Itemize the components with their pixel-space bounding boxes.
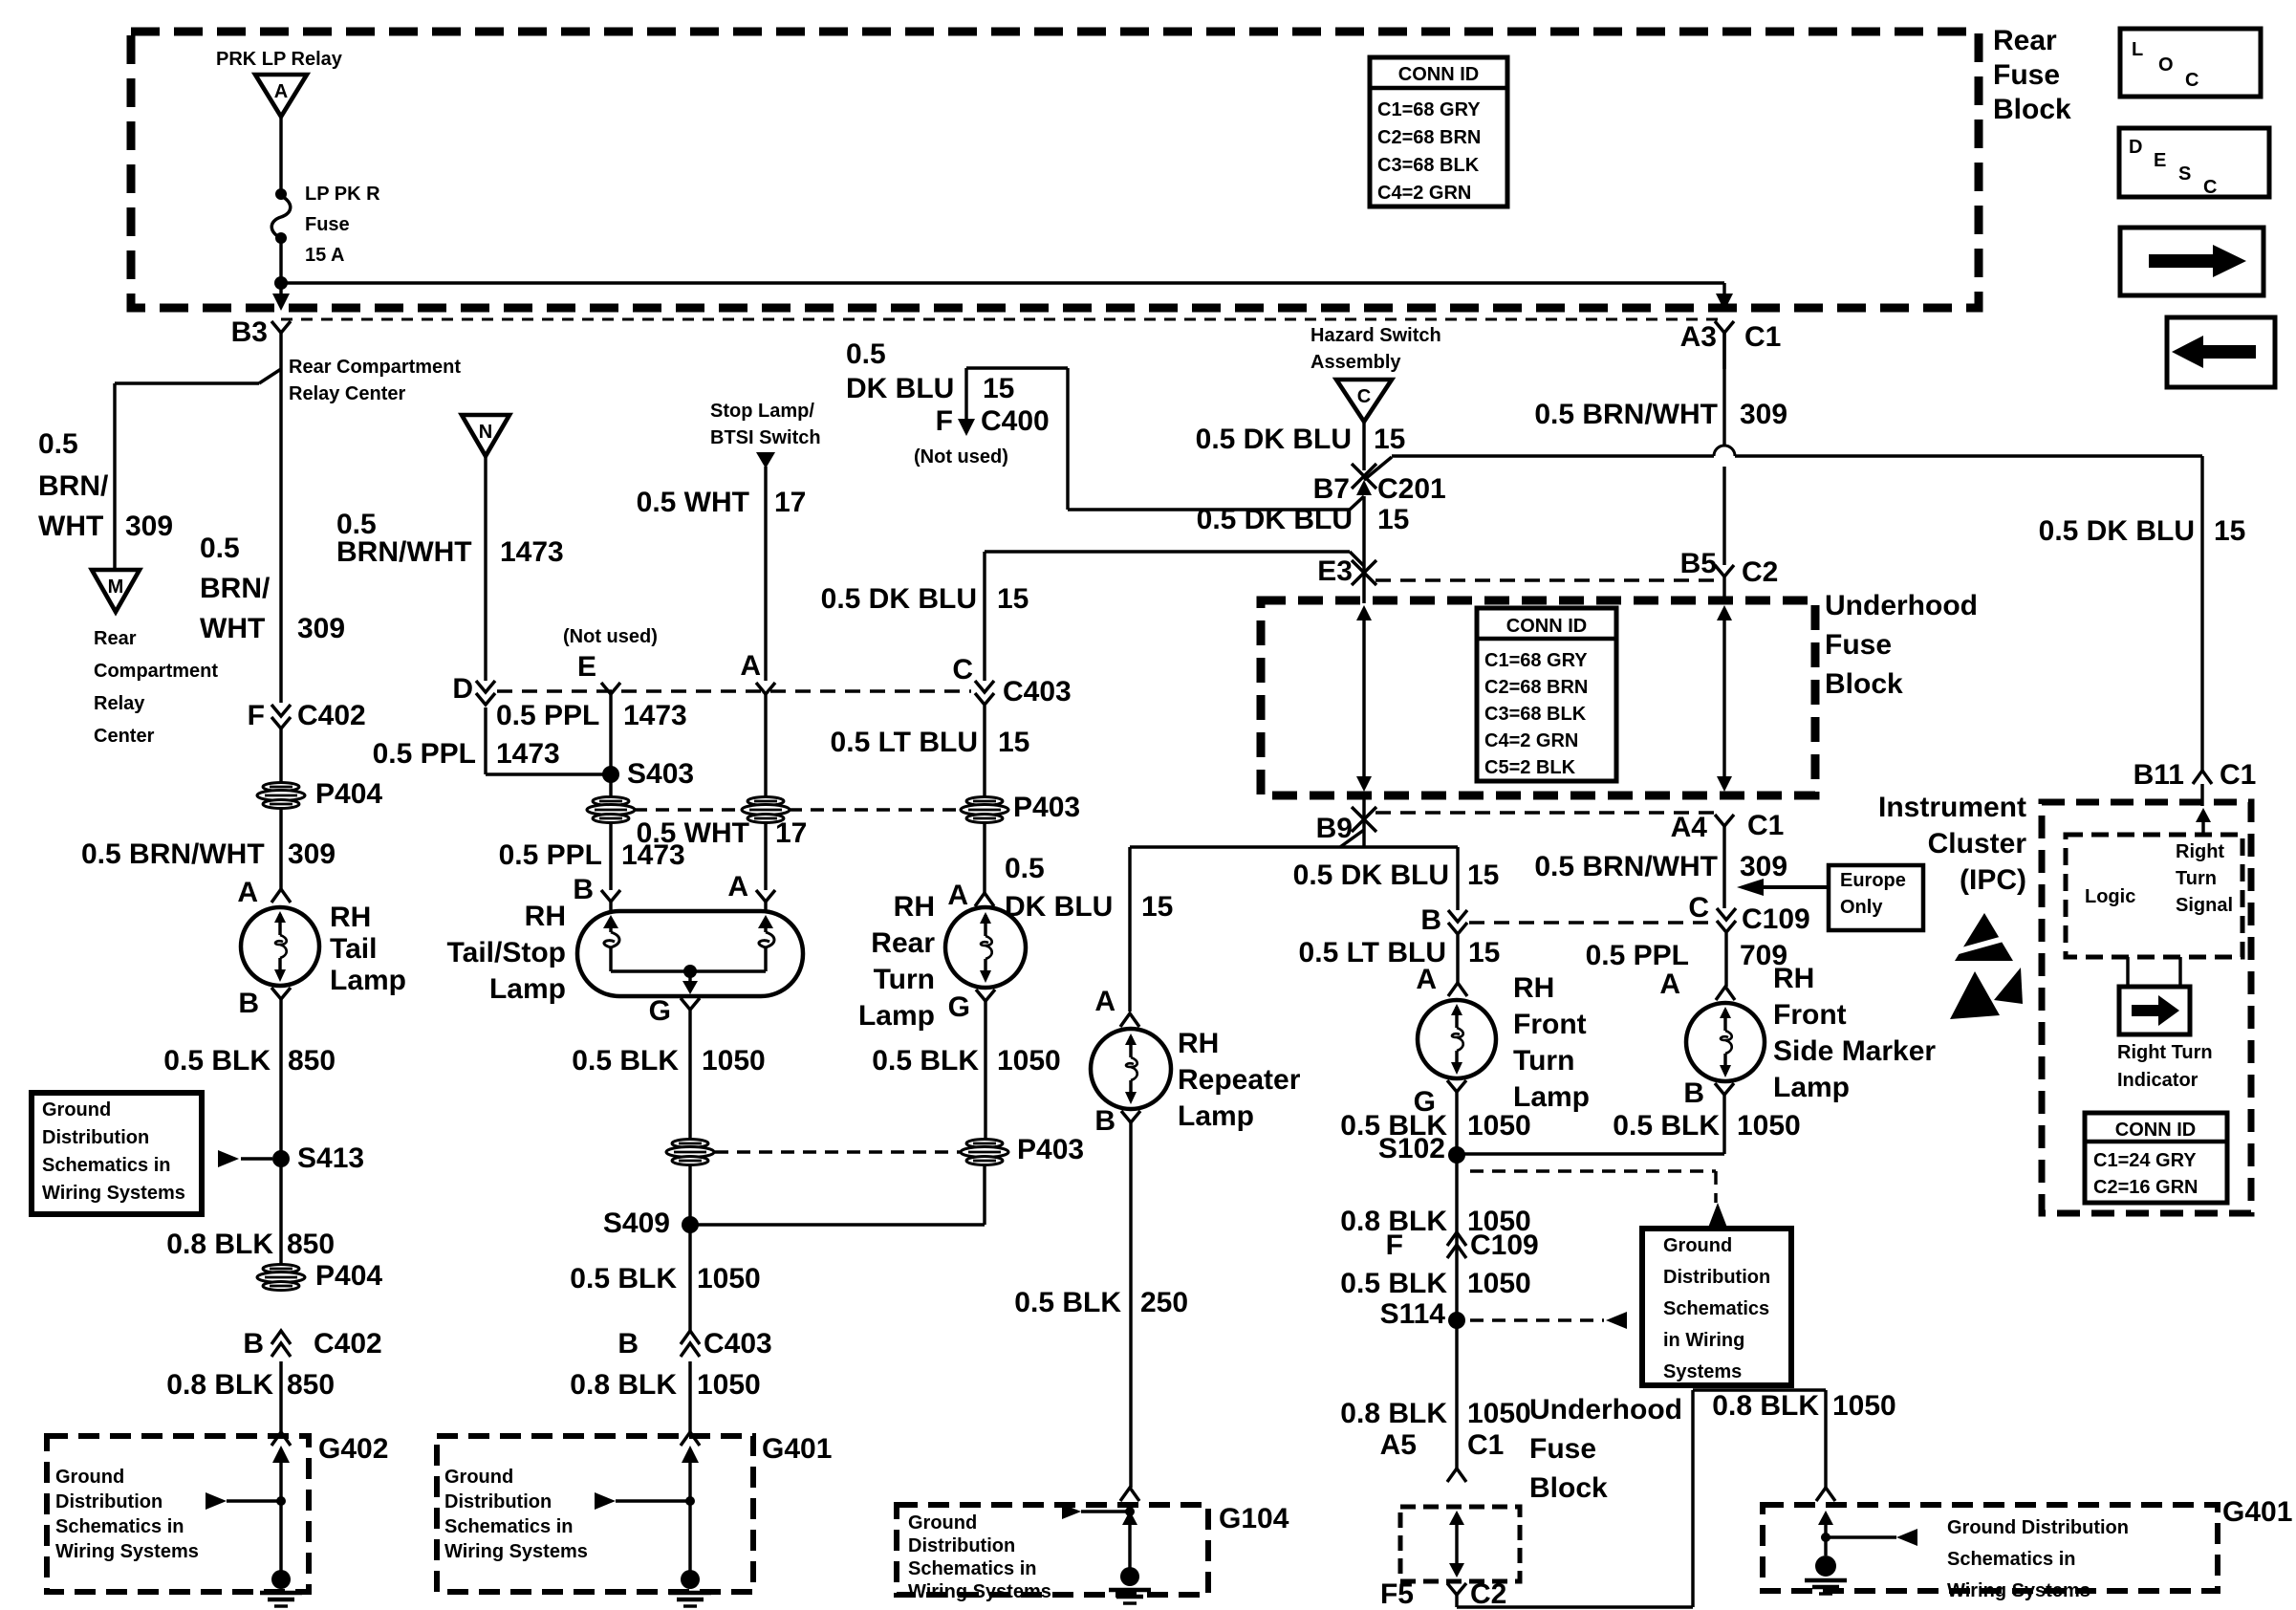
svg-text:A: A bbox=[1659, 968, 1680, 1000]
connector D bbox=[452, 673, 495, 705]
svg-text:0.5 PPL: 0.5 PPL bbox=[496, 700, 599, 731]
svg-text:15: 15 bbox=[997, 583, 1029, 615]
svg-text:A: A bbox=[237, 877, 258, 908]
svg-text:G: G bbox=[649, 995, 671, 1027]
wire F5 bottom route bbox=[1457, 1390, 1826, 1607]
underhood right feed-through arrows bbox=[1717, 605, 1732, 792]
lamp RH Rear Turn Lamp bbox=[945, 907, 1026, 988]
wire into G402 with arrow bbox=[272, 1446, 290, 1576]
lamp RH Front Side Marker Lamp bbox=[1686, 1003, 1765, 1081]
label G401 bbox=[762, 1433, 832, 1465]
svg-text:Lamp: Lamp bbox=[1178, 1100, 1254, 1132]
fuse LP PK R 15A bbox=[271, 188, 291, 244]
grommet below S403 bbox=[587, 797, 635, 891]
europe only arrow bbox=[1737, 879, 1829, 896]
svg-text:C2=68 BRN: C2=68 BRN bbox=[1377, 127, 1481, 148]
svg-text:1050: 1050 bbox=[702, 1045, 766, 1077]
svg-text:Schematics in: Schematics in bbox=[444, 1516, 574, 1537]
connector F C402 bbox=[248, 700, 366, 731]
svg-text:E3: E3 bbox=[1317, 555, 1353, 587]
svg-text:A: A bbox=[740, 650, 761, 682]
svg-text:0.5 PPL: 0.5 PPL bbox=[1586, 940, 1689, 971]
svg-text:1473: 1473 bbox=[623, 700, 687, 731]
wire fuse to bus bbox=[279, 238, 282, 283]
pin into G401 bbox=[681, 1432, 700, 1446]
wire label 0.8 BLK 850 lower bbox=[166, 1369, 335, 1401]
ground block G401 right dashed box bbox=[1763, 1505, 2218, 1591]
grommet tail stop ground bbox=[666, 1140, 714, 1165]
conn id table underhood bbox=[1477, 608, 1616, 781]
label Rear Fuse Block bbox=[1993, 25, 2071, 125]
label Right Turn Indicator bbox=[2117, 1042, 2213, 1091]
wire label 0.5 WHT 17 bbox=[637, 487, 807, 518]
svg-text:E: E bbox=[2154, 150, 2166, 171]
label RH Rear Turn Lamp bbox=[858, 891, 935, 1032]
svg-text:B: B bbox=[1683, 1077, 1704, 1109]
svg-text:Ground: Ground bbox=[444, 1467, 513, 1488]
svg-text:Turn: Turn bbox=[874, 964, 935, 995]
svg-text:A: A bbox=[1094, 986, 1116, 1017]
svg-text:M: M bbox=[108, 577, 124, 598]
grommet stop lamp wire bbox=[742, 797, 790, 891]
label Rear Compartment Relay Center top bbox=[289, 357, 461, 404]
fuse label LP PK R bbox=[305, 184, 380, 266]
svg-text:WHT: WHT bbox=[38, 511, 103, 542]
hazard switch triangle C bbox=[1336, 380, 1392, 422]
svg-text:Relay: Relay bbox=[94, 693, 145, 714]
svg-text:O: O bbox=[2158, 54, 2174, 76]
svg-text:309: 309 bbox=[288, 838, 336, 870]
svg-text:C3=68 BLK: C3=68 BLK bbox=[1377, 155, 1480, 176]
svg-text:15: 15 bbox=[1374, 424, 1405, 455]
svg-text:B: B bbox=[243, 1328, 264, 1360]
svg-text:B3: B3 bbox=[231, 316, 268, 348]
svg-text:Systems: Systems bbox=[1663, 1361, 1742, 1382]
svg-text:(Not used): (Not used) bbox=[914, 446, 1008, 468]
svg-text:Europe: Europe bbox=[1840, 870, 1906, 891]
svg-text:Schematics in: Schematics in bbox=[1947, 1549, 2076, 1570]
svg-text:Ground: Ground bbox=[908, 1512, 977, 1534]
svg-text:0.5: 0.5 bbox=[846, 338, 886, 370]
wire B9 split to repeater and front turn bbox=[1130, 847, 1458, 1012]
svg-text:Right: Right bbox=[2176, 841, 2224, 862]
connector E3 bbox=[1317, 555, 1376, 587]
svg-text:Turn: Turn bbox=[1513, 1045, 1574, 1077]
connector B11 C1 bbox=[2134, 759, 2257, 806]
svg-text:15: 15 bbox=[2214, 515, 2245, 547]
wire drop to C1 A3 with arrow bbox=[1716, 283, 1733, 311]
svg-text:0.5 PPL: 0.5 PPL bbox=[499, 839, 602, 871]
connector line B9 A4 dashed bbox=[1375, 811, 1714, 814]
svg-text:Underhood: Underhood bbox=[1825, 590, 1978, 621]
svg-text:850: 850 bbox=[288, 1045, 336, 1077]
connector F C109 bbox=[1386, 1229, 1539, 1261]
svg-text:Hazard Switch: Hazard Switch bbox=[1310, 325, 1441, 346]
svg-text:Logic: Logic bbox=[2085, 886, 2135, 907]
svg-text:L: L bbox=[2132, 39, 2143, 60]
svg-text:S: S bbox=[2178, 163, 2191, 185]
svg-text:0.5 BLK: 0.5 BLK bbox=[572, 1045, 679, 1077]
grommet P404 bbox=[257, 778, 382, 810]
wire rear turn ground to S409 bbox=[983, 1164, 986, 1225]
wire into G401 right with arrow bbox=[1818, 1511, 1833, 1556]
connector F5 C2 bbox=[1380, 1578, 1506, 1610]
label RH Front Turn Lamp bbox=[1513, 972, 1590, 1113]
wire label 0.5 BLK 1050 side marker bbox=[1613, 1110, 1800, 1142]
svg-text:0.5 DK BLU: 0.5 DK BLU bbox=[1293, 859, 1449, 891]
svg-text:C4=2 GRN: C4=2 GRN bbox=[1484, 730, 1578, 751]
svg-text:0.5 DK BLU: 0.5 DK BLU bbox=[821, 583, 977, 615]
svg-text:1050: 1050 bbox=[1832, 1390, 1896, 1422]
splice S403 bbox=[602, 758, 694, 790]
wire label 0.8 BLK 1050 s102 bbox=[1340, 1206, 1530, 1237]
dashed ref from S102 bbox=[1470, 1171, 1727, 1228]
svg-text:850: 850 bbox=[287, 1229, 335, 1260]
svg-text:17: 17 bbox=[774, 487, 806, 518]
svg-text:Front: Front bbox=[1773, 999, 1847, 1031]
wire label 0.5 BRN/WHT 309 A3 bbox=[1534, 399, 1787, 430]
underhood fuse block dashed box bbox=[1261, 600, 1815, 795]
grommet P403 rear turn ground bbox=[961, 1134, 1084, 1165]
label Instrument Cluster IPC bbox=[1878, 792, 2026, 896]
svg-text:Instrument: Instrument bbox=[1878, 792, 2026, 823]
svg-text:Lamp: Lamp bbox=[330, 965, 406, 996]
svg-text:C403: C403 bbox=[1003, 676, 1072, 707]
label G104 bbox=[1219, 1503, 1289, 1534]
label Not used C400 bbox=[914, 446, 1008, 468]
wire label 0.5 BLK 1050 front turn bbox=[1340, 1110, 1530, 1142]
svg-text:C109: C109 bbox=[1742, 903, 1810, 935]
connector A4 C1 bbox=[1671, 810, 1785, 908]
pin G tail stop lamp bbox=[649, 995, 700, 1141]
svg-text:DK BLU: DK BLU bbox=[846, 373, 954, 404]
connector B C402 lower bbox=[243, 1328, 381, 1360]
svg-text:0.5 DK BLU: 0.5 DK BLU bbox=[2039, 515, 2195, 547]
junction arrow in G401 right bbox=[1821, 1529, 1917, 1546]
splice S409 bbox=[603, 1207, 985, 1239]
wire label 0.5 BLK 1050 below S409 bbox=[570, 1263, 760, 1295]
wire label 0.5 PPL 1473 at D bbox=[373, 738, 560, 770]
svg-text:B11: B11 bbox=[2134, 759, 2184, 791]
connector C C109 side marker bbox=[1688, 892, 1809, 987]
svg-text:Signal: Signal bbox=[2176, 895, 2233, 916]
svg-text:A: A bbox=[1416, 964, 1437, 995]
svg-text:B: B bbox=[1094, 1105, 1116, 1137]
svg-text:F: F bbox=[248, 700, 265, 731]
svg-text:0.5 LT BLU: 0.5 LT BLU bbox=[831, 727, 978, 758]
svg-text:CONN ID: CONN ID bbox=[1506, 616, 1587, 637]
connector line B C dashed bbox=[1469, 921, 1714, 924]
svg-text:Lamp: Lamp bbox=[858, 1000, 935, 1032]
wire to S409 bbox=[688, 1164, 691, 1331]
svg-text:0.5: 0.5 bbox=[200, 533, 240, 564]
label Not used E bbox=[563, 626, 658, 647]
svg-text:F5: F5 bbox=[1380, 1578, 1414, 1610]
grommet dashed link line bbox=[634, 808, 960, 811]
wire into G104 with arrow bbox=[1122, 1511, 1137, 1573]
svg-text:0.5 PPL: 0.5 PPL bbox=[373, 738, 476, 770]
svg-text:1473: 1473 bbox=[496, 738, 560, 770]
svg-text:C: C bbox=[2185, 70, 2199, 91]
grommet P403 rear turn bbox=[961, 792, 1080, 823]
wire bus to A3 bbox=[281, 281, 1724, 284]
splice S413 bbox=[218, 1142, 364, 1174]
svg-text:Wiring Systems: Wiring Systems bbox=[1947, 1580, 2090, 1601]
wire label 0.5 PPL 1473 at E bbox=[496, 700, 687, 731]
svg-text:Tail: Tail bbox=[330, 933, 377, 965]
svg-text:15: 15 bbox=[1141, 891, 1173, 923]
svg-text:C403: C403 bbox=[704, 1328, 772, 1360]
pin B repeater lamp bbox=[1094, 1105, 1140, 1488]
svg-text:0.8 BLK: 0.8 BLK bbox=[166, 1229, 273, 1260]
svg-text:Underhood: Underhood bbox=[1529, 1394, 1682, 1425]
pin G front turn lamp bbox=[1414, 1080, 1466, 1469]
svg-text:C2=68 BRN: C2=68 BRN bbox=[1484, 677, 1588, 698]
svg-text:B: B bbox=[238, 988, 259, 1019]
svg-text:0.5 WHT: 0.5 WHT bbox=[637, 487, 749, 518]
connector C1 boundary dashed line bbox=[281, 318, 1724, 321]
svg-text:309: 309 bbox=[297, 613, 345, 644]
pin A tail stop lamp bbox=[727, 871, 775, 911]
wire label 0.5 PPL 1473 lower bbox=[499, 839, 685, 871]
svg-text:0.5 BLK: 0.5 BLK bbox=[872, 1045, 979, 1077]
svg-text:Distribution: Distribution bbox=[42, 1127, 149, 1148]
svg-text:Wiring Systems: Wiring Systems bbox=[42, 1183, 185, 1204]
svg-text:G104: G104 bbox=[1219, 1503, 1289, 1534]
svg-text:C: C bbox=[952, 654, 973, 685]
svg-text:Wiring Systems: Wiring Systems bbox=[55, 1541, 199, 1562]
svg-text:1050: 1050 bbox=[1467, 1398, 1531, 1429]
svg-text:Fuse: Fuse bbox=[1825, 629, 1892, 661]
nav box left arrow bbox=[2167, 317, 2275, 387]
connector B C109 bbox=[1420, 904, 1467, 983]
nav box right arrow bbox=[2120, 228, 2264, 295]
europe only box bbox=[1829, 865, 1923, 930]
label RH Repeater Lamp bbox=[1178, 1028, 1301, 1132]
conn id table ipc bbox=[2085, 1113, 2227, 1203]
svg-text:C2=16 GRN: C2=16 GRN bbox=[2093, 1177, 2199, 1198]
svg-text:in Wiring: in Wiring bbox=[1663, 1330, 1744, 1351]
svg-text:1050: 1050 bbox=[1467, 1110, 1531, 1142]
wire P403 to rear turn lamp bbox=[983, 821, 986, 893]
svg-text:1050: 1050 bbox=[1737, 1110, 1801, 1142]
text in G104 bbox=[908, 1512, 1051, 1602]
text in G401 right bbox=[1947, 1517, 2129, 1601]
pin into G401 right bbox=[1816, 1488, 1835, 1501]
label Logic bbox=[2085, 886, 2135, 907]
svg-text:309: 309 bbox=[1740, 399, 1787, 430]
wire into E3 bbox=[985, 496, 1364, 681]
svg-text:Assembly: Assembly bbox=[1310, 352, 1401, 373]
ground G104 bbox=[1109, 1567, 1151, 1603]
svg-text:C400: C400 bbox=[981, 405, 1050, 437]
label Underhood Fuse Block small bbox=[1529, 1394, 1682, 1504]
svg-text:Center: Center bbox=[94, 726, 155, 747]
wire into G401 with arrow bbox=[682, 1446, 699, 1576]
label Hazard Switch Assembly bbox=[1310, 325, 1441, 373]
svg-text:C201: C201 bbox=[1377, 473, 1446, 505]
svg-text:S102: S102 bbox=[1378, 1133, 1445, 1164]
underhood left feed-through arrows bbox=[1356, 605, 1372, 792]
svg-text:C1: C1 bbox=[1744, 321, 1781, 353]
svg-text:Rear: Rear bbox=[871, 927, 935, 959]
svg-text:0.5 BRN/WHT: 0.5 BRN/WHT bbox=[81, 838, 265, 870]
wire label 0.5 LT BLU 15 rear turn bbox=[831, 727, 1030, 758]
svg-text:1050: 1050 bbox=[697, 1369, 761, 1401]
svg-text:A5: A5 bbox=[1380, 1429, 1417, 1461]
wire label 0.5 BRN/WHT 1473 bbox=[336, 509, 564, 568]
svg-text:C2: C2 bbox=[1742, 556, 1778, 588]
connector A stop lamp wire bbox=[740, 650, 775, 798]
svg-text:G401: G401 bbox=[2222, 1496, 2292, 1528]
grommet dashed link to P403 bbox=[715, 1150, 960, 1153]
wire label 0.5 DK BLU 15 below B7 bbox=[1197, 504, 1410, 535]
svg-text:C: C bbox=[1357, 386, 1371, 407]
relay triangle A bbox=[255, 75, 307, 117]
wire P404 to tail lamp bbox=[279, 807, 282, 889]
pin A repeater lamp bbox=[1094, 986, 1139, 1027]
svg-text:B: B bbox=[1420, 904, 1441, 936]
svg-text:1473: 1473 bbox=[500, 536, 564, 568]
svg-text:Relay Center: Relay Center bbox=[289, 383, 405, 404]
svg-text:P403: P403 bbox=[1013, 792, 1080, 823]
connector A5 C1 bbox=[1380, 1429, 1505, 1461]
svg-text:Fuse: Fuse bbox=[1993, 59, 2060, 91]
svg-text:S413: S413 bbox=[297, 1142, 364, 1174]
svg-text:CONN ID: CONN ID bbox=[1398, 64, 1479, 85]
svg-text:Wiring Systems: Wiring Systems bbox=[908, 1581, 1051, 1602]
wire label 0.8 BLK 850 bbox=[166, 1229, 335, 1260]
label Underhood Fuse Block bbox=[1825, 590, 1978, 700]
stub label 0.5 DK BLU 15 bbox=[846, 338, 1014, 404]
svg-text:Distribution: Distribution bbox=[1663, 1267, 1770, 1288]
pin G rear turn lamp bbox=[948, 990, 995, 1141]
svg-text:RH: RH bbox=[1178, 1028, 1219, 1059]
svg-text:Distribution: Distribution bbox=[55, 1491, 162, 1512]
rear fuse block dashed enclosure bbox=[131, 32, 1979, 308]
svg-text:P404: P404 bbox=[315, 1260, 382, 1292]
svg-text:G401: G401 bbox=[762, 1433, 832, 1465]
svg-text:C: C bbox=[2203, 177, 2217, 198]
svg-text:C402: C402 bbox=[314, 1328, 382, 1360]
label G401 right bbox=[2222, 1496, 2292, 1528]
svg-text:15: 15 bbox=[1467, 859, 1499, 891]
grommet P404 lower bbox=[257, 1260, 382, 1292]
svg-text:BTSI Switch: BTSI Switch bbox=[710, 427, 821, 448]
svg-text:A3: A3 bbox=[1680, 321, 1717, 353]
tail stop lamp filaments bbox=[603, 915, 774, 994]
svg-text:A4: A4 bbox=[1671, 812, 1708, 843]
connector B9 bbox=[1316, 795, 1376, 847]
svg-text:BRN/: BRN/ bbox=[38, 470, 109, 502]
svg-text:Rear Compartment: Rear Compartment bbox=[289, 357, 461, 378]
svg-text:Ground: Ground bbox=[55, 1467, 124, 1488]
svg-text:B5: B5 bbox=[1680, 548, 1717, 579]
svg-text:Schematics in: Schematics in bbox=[42, 1155, 171, 1176]
wire DK BLU bus bbox=[1392, 446, 2202, 771]
svg-text:Ground Distribution: Ground Distribution bbox=[1947, 1517, 2129, 1538]
svg-text:Indicator: Indicator bbox=[2117, 1070, 2199, 1091]
svg-text:C3=68 BLK: C3=68 BLK bbox=[1484, 704, 1587, 725]
svg-text:A: A bbox=[727, 871, 748, 903]
svg-text:WHT: WHT bbox=[200, 613, 265, 644]
svg-text:S409: S409 bbox=[603, 1207, 670, 1239]
svg-text:(IPC): (IPC) bbox=[1960, 864, 2026, 896]
svg-text:C1: C1 bbox=[1467, 1429, 1504, 1461]
svg-text:309: 309 bbox=[1740, 851, 1787, 882]
svg-text:PRK LP Relay: PRK LP Relay bbox=[216, 49, 343, 70]
svg-text:0.5 BRN/WHT: 0.5 BRN/WHT bbox=[1534, 851, 1718, 882]
svg-text:Turn: Turn bbox=[2176, 868, 2217, 889]
connector E bbox=[577, 651, 620, 798]
label Stop Lamp BTSI Switch bbox=[710, 401, 821, 448]
svg-text:15: 15 bbox=[1468, 937, 1500, 968]
svg-text:309: 309 bbox=[125, 511, 173, 542]
svg-text:F: F bbox=[936, 405, 953, 437]
junction arrow in G104 bbox=[1062, 1504, 1135, 1519]
junction dot fuse output bbox=[274, 276, 288, 290]
pin into G104 bbox=[1120, 1488, 1139, 1501]
relay center triangle N bbox=[462, 415, 509, 456]
svg-text:A: A bbox=[274, 81, 288, 102]
nav box DESC bbox=[2119, 128, 2269, 198]
svg-text:C1=68 GRY: C1=68 GRY bbox=[1377, 99, 1481, 120]
svg-text:RH: RH bbox=[1773, 963, 1814, 994]
wire C403 to G401 bbox=[688, 1361, 691, 1432]
ground G401 bbox=[669, 1570, 711, 1606]
wire label 0.5 BRN/WHT 309 left branch bbox=[38, 428, 173, 542]
svg-text:0.5 BLK: 0.5 BLK bbox=[570, 1263, 677, 1295]
wire label 0.5 DK BLU 15 repeater bbox=[1005, 853, 1173, 923]
svg-text:0.5 BLK: 0.5 BLK bbox=[1613, 1110, 1720, 1142]
svg-text:Lamp: Lamp bbox=[489, 973, 566, 1005]
wire C402 to P404 bbox=[279, 729, 282, 784]
svg-text:B7: B7 bbox=[1313, 473, 1350, 505]
indicator pins bbox=[2128, 957, 2180, 987]
ground block G402 dashed box bbox=[47, 1436, 309, 1592]
pin A rear turn lamp bbox=[947, 880, 994, 911]
wire label 0.8 BLK 1050 bbox=[570, 1369, 760, 1401]
wire label 0.8 BLK 1050 bottom bbox=[1712, 1390, 1895, 1422]
wire A3 to B5 bbox=[1722, 333, 1725, 565]
svg-text:0.8 BLK: 0.8 BLK bbox=[570, 1369, 677, 1401]
wire label 0.5 DK BLU 15 b11 bbox=[2039, 515, 2246, 547]
label G402 bbox=[318, 1433, 388, 1465]
wire label 0.5 BLK 850 bbox=[163, 1045, 336, 1077]
svg-text:B: B bbox=[573, 874, 594, 905]
svg-text:BRN/WHT: BRN/WHT bbox=[336, 536, 472, 568]
text in G402 bbox=[55, 1467, 199, 1562]
label Rear Compartment Relay Center bbox=[94, 628, 218, 747]
svg-text:Lamp: Lamp bbox=[1513, 1081, 1590, 1113]
svg-text:Only: Only bbox=[1840, 897, 1883, 918]
svg-text:RH: RH bbox=[1513, 972, 1554, 1004]
label RH Tail Lamp bbox=[330, 902, 406, 996]
svg-text:DK BLU: DK BLU bbox=[1005, 891, 1113, 923]
svg-text:0.5 BLK: 0.5 BLK bbox=[1014, 1287, 1121, 1318]
svg-text:0.8 BLK: 0.8 BLK bbox=[166, 1369, 273, 1401]
ground G401 right bbox=[1805, 1556, 1847, 1594]
wire label 0.5 BLK 1050 rear turn bbox=[872, 1045, 1060, 1077]
connector line E3 B5 dashed bbox=[1375, 578, 1714, 581]
wire label 0.8 BLK 1050 a5 bbox=[1340, 1398, 1530, 1429]
underhood fuse block small dashed box bbox=[1400, 1507, 1520, 1581]
wire label 0.5 LT BLU 15 front turn bbox=[1299, 937, 1501, 968]
svg-text:C1=68 GRY: C1=68 GRY bbox=[1484, 650, 1588, 671]
svg-text:1050: 1050 bbox=[697, 1263, 761, 1295]
splice S102 bbox=[1378, 1133, 1724, 1164]
svg-text:Schematics in: Schematics in bbox=[908, 1558, 1037, 1579]
